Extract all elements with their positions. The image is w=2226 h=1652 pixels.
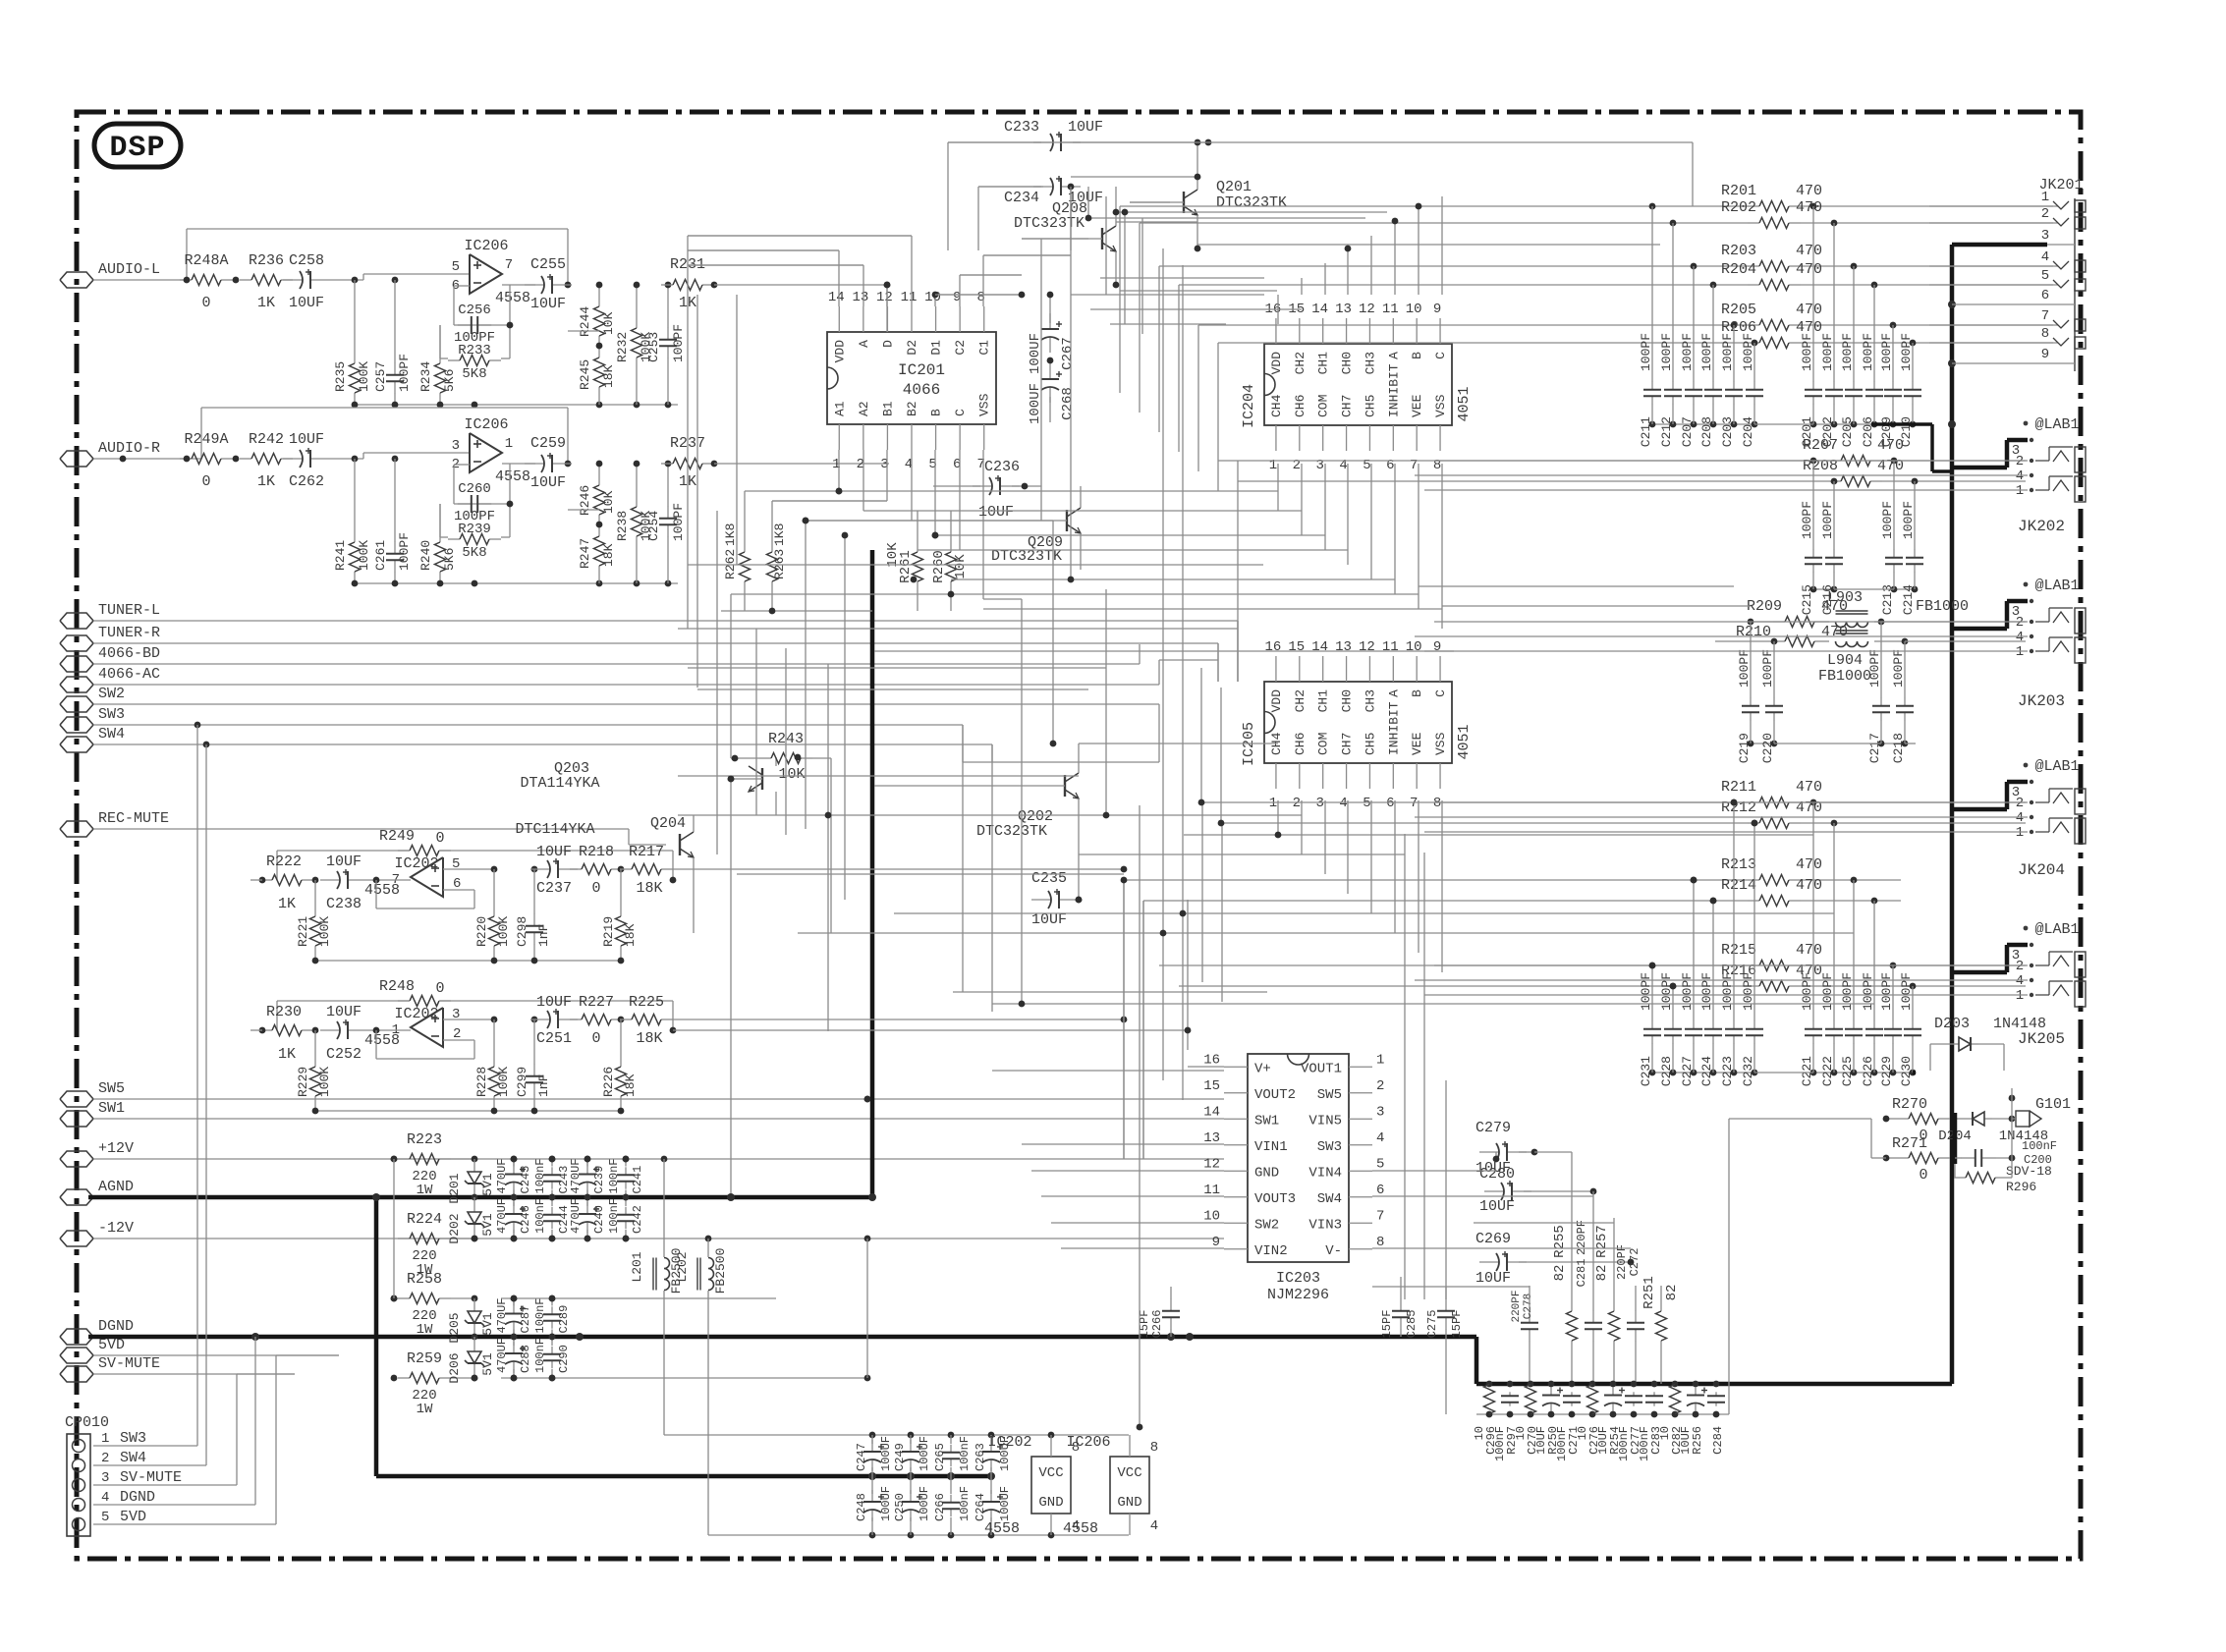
svg-text:470UF: 470UF	[495, 1198, 509, 1234]
wire feedback loop R	[201, 408, 571, 467]
svg-text:SV-MUTE: SV-MUTE	[120, 1469, 182, 1486]
IC power IC206	[1063, 1434, 1158, 1537]
capacitor C265	[933, 1435, 972, 1476]
svg-text:R258: R258	[407, 1271, 442, 1288]
svg-text:IC204: IC204	[1241, 384, 1257, 428]
svg-text:3: 3	[1315, 796, 1323, 811]
resistor R245	[568, 331, 616, 405]
svg-text:1K8: 1K8	[723, 523, 738, 546]
capacitor C254	[646, 461, 686, 583]
svg-text:100UF: 100UF	[879, 1436, 893, 1471]
svg-text:14: 14	[1311, 302, 1328, 317]
svg-text:R239: R239	[458, 522, 491, 537]
svg-text:R222: R222	[266, 854, 302, 870]
svg-text:D201: D201	[447, 1173, 462, 1203]
svg-text:SW1: SW1	[1254, 1113, 1279, 1129]
capacitor C224	[1699, 901, 1722, 1086]
svg-text:4558: 4558	[495, 468, 530, 485]
svg-text:4: 4	[1376, 1130, 1384, 1146]
svg-text:C288: C288	[519, 1345, 532, 1373]
svg-text:2: 2	[2016, 796, 2024, 811]
capacitor C285	[1380, 1277, 1419, 1338]
resistor R220	[474, 869, 511, 961]
svg-text:GND: GND	[1254, 1165, 1279, 1181]
svg-text:JK204: JK204	[2018, 861, 2065, 879]
svg-text:SW3: SW3	[98, 706, 125, 723]
svg-text:1W: 1W	[417, 1402, 433, 1417]
svg-text:10: 10	[1203, 1208, 1220, 1224]
svg-text:1: 1	[2016, 825, 2024, 841]
svg-text:100PF: 100PF	[671, 503, 686, 541]
svg-text:CP010: CP010	[65, 1414, 109, 1431]
connector CP010	[65, 1414, 182, 1536]
svg-text:VIN5: VIN5	[1308, 1113, 1342, 1129]
svg-text:100nF: 100nF	[607, 1198, 621, 1234]
resistor R210	[1715, 624, 1848, 647]
transistor Q204	[515, 815, 694, 933]
wire 5VD net	[93, 1354, 339, 1356]
port AUDIO-R	[60, 440, 160, 467]
svg-text:VSS: VSS	[1433, 732, 1448, 755]
port +12V	[60, 1140, 134, 1167]
wire routing mesh horizontal	[673, 142, 1874, 1287]
svg-text:C278: C278	[1523, 1294, 1534, 1319]
svg-text:IC206: IC206	[464, 416, 508, 433]
wire cap bank tie	[1754, 424, 1932, 471]
capacitor C251	[530, 994, 578, 1047]
capacitor C205	[1840, 266, 1863, 447]
wire op-amp input R	[330, 453, 470, 462]
svg-text:100PF: 100PF	[1861, 333, 1875, 371]
svg-text:470UF: 470UF	[495, 1158, 509, 1193]
svg-text:C: C	[953, 409, 968, 416]
capacitor C236	[933, 459, 1041, 521]
svg-text:C242: C242	[631, 1205, 644, 1234]
svg-text:R215: R215	[1721, 942, 1756, 959]
wire lower bus B	[1476, 1119, 1886, 1417]
connector JK203	[2012, 578, 2086, 710]
svg-text:C224: C224	[1699, 1056, 1714, 1086]
capacitor bank element	[1501, 1392, 1519, 1405]
svg-text:3: 3	[2041, 228, 2049, 244]
capacitor C279	[1475, 1120, 1572, 1177]
port SW3	[60, 706, 125, 733]
wire block output IC202	[673, 1017, 1127, 1023]
capacitor C219	[1737, 622, 1759, 763]
svg-text:C261: C261	[373, 540, 388, 571]
capacitor C244	[533, 1194, 571, 1242]
svg-text:14: 14	[1311, 639, 1328, 655]
svg-text:220PF: 220PF	[1575, 1220, 1588, 1255]
svg-text:10: 10	[1406, 302, 1422, 317]
inductor L201	[630, 1159, 684, 1298]
capacitor C214	[1901, 481, 1923, 615]
wire IC201 pin14	[688, 250, 839, 306]
svg-text:R229: R229	[296, 1067, 310, 1097]
svg-text:100PF: 100PF	[1680, 333, 1695, 371]
svg-text:2: 2	[2016, 959, 2024, 974]
svg-text:100PF: 100PF	[397, 532, 412, 571]
svg-text:10UF: 10UF	[326, 854, 362, 870]
wire IC201 pin9	[960, 275, 1022, 306]
wire JK202 signals	[1415, 461, 2028, 490]
svg-text:R202: R202	[1721, 199, 1756, 216]
svg-text:3: 3	[1376, 1104, 1384, 1120]
wire IC201 pin10	[932, 292, 1022, 306]
capacitor C288	[495, 1334, 532, 1382]
capacitor C237	[530, 844, 578, 897]
capacitor C255	[525, 256, 572, 312]
svg-text:100UF: 100UF	[918, 1486, 931, 1521]
svg-text:D203: D203	[1934, 1016, 1970, 1032]
svg-text:R228: R228	[474, 1067, 489, 1097]
capacitor C266	[1138, 1287, 1180, 1338]
svg-text:L202: L202	[675, 1251, 690, 1282]
wire CP010 pin3 to SV-MUTE	[93, 1374, 295, 1485]
port SW1	[60, 1100, 125, 1127]
svg-text:18K: 18K	[601, 364, 616, 388]
wire -12V net	[93, 1236, 1224, 1242]
capacitor C275	[1425, 1287, 1464, 1414]
capacitor C228	[1659, 972, 1682, 1086]
svg-text:13: 13	[852, 290, 868, 305]
wire SW3 net	[93, 722, 963, 762]
wire 4066-AC net	[93, 660, 1218, 685]
capacitor C210	[1899, 333, 1921, 447]
capacitor C260	[454, 481, 495, 524]
svg-text:220PF: 220PF	[1511, 1290, 1523, 1322]
svg-text:18K: 18K	[636, 880, 662, 897]
svg-text:15PF: 15PF	[1450, 1310, 1464, 1339]
resistor R204	[1179, 261, 2058, 291]
svg-text:13: 13	[1335, 639, 1352, 655]
resistor R221	[296, 880, 332, 961]
svg-text:100PF: 100PF	[1861, 972, 1875, 1011]
svg-text:JK202: JK202	[2018, 518, 2065, 535]
port -12V	[60, 1220, 134, 1246]
wire op-amp input L	[330, 274, 470, 283]
svg-text:C249: C249	[893, 1443, 907, 1471]
capacitor C221	[1800, 802, 1822, 1086]
wire R258 feed	[391, 1159, 398, 1301]
wire IC201 pin5	[932, 450, 939, 538]
resistor R259	[391, 1350, 478, 1417]
capacitor C218	[1891, 641, 1914, 763]
resistor R223	[391, 1131, 478, 1198]
resistor R236	[240, 252, 293, 311]
svg-text:G101: G101	[2035, 1096, 2071, 1113]
capacitor C232	[1741, 823, 1763, 1086]
svg-text:4066-AC: 4066-AC	[98, 666, 160, 683]
wire SW2 net	[93, 704, 1159, 762]
svg-text:100PF: 100PF	[1680, 972, 1695, 1011]
wire JK202 shield	[1952, 440, 2028, 468]
wire out L	[714, 284, 889, 286]
svg-text:R260: R260	[931, 550, 947, 583]
resistor R222	[250, 854, 318, 912]
capacitor C240	[569, 1194, 606, 1242]
wire L903 bus tie	[1774, 743, 1916, 744]
capacitor bank element	[1587, 1385, 1598, 1414]
resistor R248	[277, 978, 676, 1033]
wire IC201 pin3	[772, 450, 887, 501]
capacitor C222	[1820, 823, 1843, 1086]
wire shield bus right	[1948, 245, 2047, 1384]
svg-text:10UF: 10UF	[530, 474, 566, 491]
svg-text:10UF: 10UF	[978, 504, 1014, 521]
capacitor C256	[454, 303, 495, 346]
svg-text:C215: C215	[1800, 584, 1814, 615]
resistor R207	[1218, 437, 2026, 467]
svg-text:C299: C299	[515, 1067, 529, 1097]
svg-text:18K: 18K	[623, 1074, 638, 1097]
svg-text:C280: C280	[1479, 1166, 1515, 1183]
wire op-amp output IC202	[367, 1027, 474, 1059]
inductor L904	[1818, 631, 2026, 685]
resistor R249	[277, 828, 676, 883]
svg-text:10UF: 10UF	[1534, 1426, 1548, 1455]
svg-text:15: 15	[1288, 639, 1305, 655]
svg-text:100nF: 100nF	[958, 1436, 972, 1471]
wire JK205 shield	[1952, 945, 2028, 972]
wire CP010 pin1 to SW3	[93, 725, 197, 1446]
svg-text:L904: L904	[1827, 652, 1863, 669]
wire cap bank bus	[1810, 421, 1917, 428]
port AGND	[60, 1179, 134, 1205]
svg-text:100PF: 100PF	[1891, 649, 1906, 688]
svg-text:R256: R256	[1691, 1426, 1704, 1455]
svg-text:SW5: SW5	[98, 1080, 125, 1097]
capacitor C247	[855, 1435, 893, 1476]
diode D203	[1930, 1016, 2046, 1071]
capacitor C278	[1511, 1286, 1538, 1384]
svg-text:18K: 18K	[636, 1030, 662, 1047]
wire routing mesh vertical	[688, 187, 1496, 1427]
svg-text:100PF: 100PF	[1699, 333, 1714, 371]
svg-text:16: 16	[1203, 1052, 1220, 1068]
svg-text:16: 16	[1265, 639, 1282, 655]
wire CP010 pin4 to DGND	[93, 1337, 255, 1505]
svg-text:100K: 100K	[357, 361, 371, 392]
resistor R243	[731, 731, 831, 933]
wire cap bank bus	[1649, 421, 1758, 428]
svg-text:SW2: SW2	[98, 686, 125, 702]
svg-text:1: 1	[505, 436, 513, 452]
svg-text:CH1: CH1	[1316, 689, 1331, 713]
svg-text:C285: C285	[1405, 1310, 1419, 1339]
svg-text:100PF: 100PF	[1901, 501, 1916, 539]
capacitor C209	[1879, 325, 1902, 447]
svg-text:100PF: 100PF	[1720, 972, 1735, 1011]
svg-text:1: 1	[101, 1431, 109, 1447]
resistor R203	[1159, 243, 2058, 272]
port AUDIO-L	[60, 261, 160, 288]
svg-text:R214: R214	[1721, 877, 1756, 894]
connector JK205	[2012, 921, 2086, 1048]
resistor R235	[333, 280, 371, 405]
svg-text:JK205: JK205	[2018, 1030, 2065, 1048]
svg-text:R271: R271	[1892, 1135, 1927, 1152]
svg-text:100UF: 100UF	[998, 1486, 1012, 1521]
wire IC201 pin1	[745, 450, 842, 494]
svg-text:C269: C269	[1475, 1231, 1511, 1247]
svg-text:R211: R211	[1721, 779, 1756, 796]
svg-text:CH2: CH2	[1293, 689, 1308, 712]
resistor R244	[578, 282, 616, 348]
svg-text:DTC323TK: DTC323TK	[1014, 215, 1085, 232]
wire Q203 base	[727, 779, 735, 1201]
svg-text:1nF: 1nF	[536, 924, 551, 947]
svg-text:C247: C247	[855, 1443, 868, 1471]
svg-text:CH0: CH0	[1340, 352, 1355, 374]
svg-text:100nF: 100nF	[607, 1158, 621, 1193]
svg-text:C212: C212	[1659, 416, 1674, 447]
svg-text:5V1: 5V1	[480, 1312, 495, 1336]
svg-text:100PF: 100PF	[1800, 501, 1814, 539]
svg-text:D202: D202	[447, 1213, 462, 1243]
svg-text:C265: C265	[933, 1443, 947, 1471]
op-amp IC202	[364, 1006, 461, 1049]
wire IC201 pin12	[884, 282, 891, 306]
svg-text:IC202: IC202	[394, 1006, 438, 1022]
capacitor C206	[1861, 285, 1883, 447]
svg-text:R259: R259	[407, 1350, 442, 1367]
svg-text:SW3: SW3	[120, 1430, 146, 1447]
svg-text:10UF: 10UF	[536, 844, 572, 860]
capacitor C261	[373, 459, 412, 583]
svg-text:1W: 1W	[417, 1183, 433, 1198]
svg-text:100nF: 100nF	[533, 1158, 547, 1193]
capacitor bank element	[1670, 1385, 1681, 1414]
wire supply bank feed	[664, 1306, 806, 1535]
wire CP010 pin5 to 5VD	[93, 1355, 339, 1524]
svg-text:5K6: 5K6	[442, 369, 457, 392]
svg-text:C234: C234	[1004, 190, 1039, 206]
transistor Q208	[1014, 187, 1119, 288]
inductor L903	[1827, 589, 2026, 628]
svg-text:470: 470	[1796, 942, 1822, 959]
svg-text:100UF: 100UF	[918, 1436, 931, 1471]
svg-text:4: 4	[2016, 973, 2024, 989]
svg-text:1: 1	[2016, 483, 2024, 499]
svg-text:IC201: IC201	[898, 361, 945, 379]
svg-text:11: 11	[901, 290, 918, 305]
svg-text:0: 0	[435, 980, 444, 997]
svg-text:10UF: 10UF	[289, 295, 324, 311]
svg-text:10UF: 10UF	[536, 994, 572, 1011]
svg-text:C241: C241	[631, 1166, 644, 1194]
svg-text:D: D	[880, 340, 895, 348]
svg-text:100PF: 100PF	[1639, 333, 1653, 371]
svg-text:Q201: Q201	[1216, 179, 1252, 195]
capacitor C272	[1615, 1244, 1644, 1384]
resistor R271	[1883, 1113, 1955, 1184]
port 4066-AC	[60, 666, 160, 692]
svg-text:1: 1	[1269, 796, 1277, 811]
svg-text:4051: 4051	[1456, 386, 1473, 421]
capacitor C242	[607, 1194, 644, 1242]
svg-text:D205: D205	[447, 1312, 462, 1343]
capacitor C280	[1479, 1166, 1596, 1215]
svg-text:4066: 4066	[903, 381, 940, 399]
wire IC201 pin6	[959, 450, 961, 550]
wire cap bank bus	[1748, 741, 1778, 747]
svg-text:C233: C233	[1004, 119, 1039, 136]
capacitor C204	[1741, 333, 1763, 447]
diode D206	[447, 1337, 495, 1384]
capacitor C231	[1639, 965, 1661, 1086]
svg-text:1: 1	[2016, 988, 2024, 1004]
svg-text:5V1: 5V1	[480, 1173, 495, 1196]
connector JK201	[2038, 177, 2086, 371]
svg-text:R205: R205	[1721, 302, 1756, 318]
svg-text:1nF: 1nF	[536, 1074, 551, 1097]
capacitor C212	[1659, 223, 1682, 447]
svg-text:C267: C267	[1060, 337, 1076, 370]
resistor R240	[418, 504, 457, 583]
port 4066-BD	[60, 645, 160, 672]
wire 4066-BD net	[93, 644, 1140, 664]
svg-text:SW2: SW2	[1254, 1217, 1279, 1233]
svg-text:R241: R241	[333, 540, 348, 571]
svg-text:B2: B2	[905, 401, 919, 416]
svg-text:R224: R224	[407, 1211, 442, 1228]
svg-text:470: 470	[1796, 779, 1822, 796]
svg-text:1K: 1K	[278, 1046, 296, 1063]
capacitor C211	[1639, 206, 1661, 447]
capacitor C299	[515, 1019, 551, 1111]
svg-text:L201: L201	[630, 1251, 644, 1282]
port SW4	[60, 726, 125, 752]
svg-text:10: 10	[1576, 1426, 1589, 1440]
capacitor C248	[855, 1476, 893, 1535]
wire to op-amp R	[0, 0, 1, 1]
svg-text:4: 4	[2016, 468, 2024, 484]
svg-text:5: 5	[101, 1510, 109, 1525]
svg-text:C253: C253	[646, 332, 661, 362]
svg-text:1K8: 1K8	[772, 523, 787, 546]
capacitor C246	[495, 1194, 532, 1242]
svg-text:5V1: 5V1	[480, 1213, 495, 1237]
svg-text:C290: C290	[557, 1345, 571, 1373]
svg-text:COM: COM	[1316, 733, 1331, 755]
capacitor C269	[1475, 1231, 1634, 1287]
svg-text:A1: A1	[832, 401, 847, 416]
wire JK203 shield	[1952, 601, 2028, 629]
port DGND	[60, 1318, 134, 1345]
svg-text:CH5: CH5	[1363, 395, 1377, 417]
svg-text:9: 9	[2041, 347, 2049, 362]
resistor R217	[620, 844, 673, 897]
capacitor C200	[1955, 1139, 2057, 1167]
svg-text:12: 12	[876, 290, 893, 305]
svg-text:82: 82	[1552, 1265, 1568, 1282]
port SV-MUTE	[60, 1355, 160, 1382]
svg-text:12: 12	[1359, 302, 1375, 317]
svg-text:IC206: IC206	[1066, 1434, 1110, 1451]
svg-text:R213: R213	[1721, 856, 1756, 873]
capacitor C207	[1680, 266, 1702, 447]
resistor R224	[398, 1211, 477, 1278]
resistor R226	[601, 1019, 638, 1111]
op-amp IC206 L	[452, 238, 530, 306]
svg-text:IC202: IC202	[394, 855, 438, 872]
svg-text:100nF: 100nF	[1617, 1426, 1631, 1461]
resistor R213	[1124, 856, 1901, 886]
svg-text:R270: R270	[1892, 1096, 1927, 1113]
svg-text:C266: C266	[1150, 1310, 1164, 1339]
svg-text:C203: C203	[1720, 416, 1735, 447]
